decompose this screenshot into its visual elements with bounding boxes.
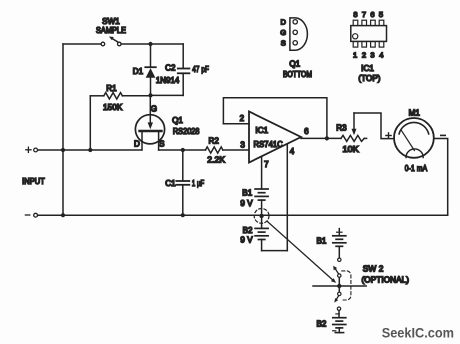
label pin 8 bbox=[353, 10, 357, 19]
label pin 4 bbox=[290, 147, 295, 156]
svg-text:S: S bbox=[159, 140, 164, 149]
wire: C2 bottom to D1 bottom bbox=[151, 94, 184, 96]
label 9 V bbox=[240, 199, 253, 208]
svg-text:RS2028: RS2028 bbox=[173, 127, 200, 136]
label D pinout bbox=[280, 18, 286, 27]
svg-text:9 V: 9 V bbox=[240, 236, 253, 245]
svg-text:(OPTIONAL): (OPTIONAL) bbox=[362, 275, 410, 284]
svg-text:SeekIC.com: SeekIC.com bbox=[382, 326, 454, 341]
wire: pointer arrow from battery junction to SW2 bbox=[267, 221, 336, 283]
label pin 3 bbox=[240, 141, 245, 150]
label pin 1 bbox=[353, 50, 357, 59]
wire: top sample line right segment bbox=[121, 43, 183, 45]
label R3 bbox=[336, 124, 347, 133]
wire: B2 bottom return to pin4 line bbox=[262, 250, 288, 252]
svg-text:1N914: 1N914 bbox=[156, 76, 180, 85]
svg-text:4: 4 bbox=[379, 50, 383, 59]
wire: left vertical from SW1 line down to ground rail bbox=[62, 44, 64, 215]
svg-text:B2: B2 bbox=[317, 319, 327, 328]
label B2 bbox=[243, 226, 253, 235]
node: junction left vertical / ground rail bbox=[61, 213, 65, 217]
label BOTTOM bbox=[283, 70, 312, 79]
svg-text:2.2K: 2.2K bbox=[207, 156, 225, 165]
label S pin bbox=[159, 140, 164, 149]
label RS2028 bbox=[173, 127, 200, 136]
wire: + input line to Q1 drain bbox=[38, 149, 142, 151]
label pin 4 bbox=[379, 50, 383, 59]
label (OPTIONAL) bbox=[362, 275, 410, 284]
resistor R1 bbox=[90, 93, 150, 99]
diode D1 bbox=[145, 67, 156, 95]
label B1 bbox=[242, 188, 252, 197]
transistor Q1 (FET) bbox=[135, 95, 164, 150]
battery B1 (optional) bbox=[333, 229, 346, 258]
wire: top sample line left segment bbox=[63, 43, 101, 45]
op-amp IC1 bbox=[249, 112, 301, 163]
svg-text:SW1: SW1 bbox=[102, 17, 120, 26]
svg-text:(TOP): (TOP) bbox=[358, 74, 380, 83]
label 1 uF bbox=[192, 179, 204, 188]
label Q1 bbox=[172, 116, 183, 125]
wire: output pin 6 bbox=[301, 137, 341, 139]
svg-text:G: G bbox=[151, 105, 157, 114]
capacitor C2 bbox=[178, 44, 190, 95]
node: junction source line / C1 bbox=[181, 148, 185, 152]
svg-text:2: 2 bbox=[362, 50, 366, 59]
meter M1 bbox=[394, 118, 434, 158]
label D1 bbox=[133, 67, 144, 76]
svg-text:0-1 mA: 0-1 mA bbox=[405, 164, 428, 173]
node: junction C1 / ground rail bbox=[181, 213, 185, 217]
svg-text:D1: D1 bbox=[133, 67, 144, 76]
label IC1 dip bbox=[361, 64, 374, 73]
wire: pin 2 input bbox=[223, 123, 249, 125]
dashed bracket SW2 bbox=[342, 271, 351, 300]
svg-text:1 µF: 1 µF bbox=[192, 179, 204, 188]
svg-text:150K: 150K bbox=[103, 103, 123, 112]
svg-text:D: D bbox=[134, 139, 140, 148]
label pin 6 bbox=[304, 127, 309, 136]
label SW1 bbox=[102, 17, 120, 26]
wire: pin 7 to B1 bbox=[261, 157, 263, 189]
label S pinout bbox=[281, 39, 286, 48]
svg-text:IC1: IC1 bbox=[255, 126, 268, 135]
svg-text:1: 1 bbox=[353, 50, 357, 59]
svg-text:S: S bbox=[281, 39, 286, 48]
svg-text:R1: R1 bbox=[106, 84, 117, 93]
svg-text:3: 3 bbox=[370, 50, 374, 59]
svg-text:9 V: 9 V bbox=[240, 199, 253, 208]
label G pinout bbox=[280, 28, 286, 37]
label pin 5 bbox=[379, 10, 383, 19]
node: junction D1/R1/C2/gate bbox=[148, 93, 152, 97]
terminal: - input bbox=[25, 213, 37, 217]
wire: R1 left drop to + line bbox=[89, 96, 91, 150]
svg-text:B1: B1 bbox=[242, 188, 252, 197]
terminal: + input bbox=[26, 147, 38, 152]
svg-text:IC1: IC1 bbox=[361, 64, 374, 73]
svg-text:7: 7 bbox=[362, 10, 366, 19]
label B1 optional bbox=[317, 237, 327, 246]
label 10K bbox=[343, 145, 360, 154]
svg-text:47 pF: 47 pF bbox=[192, 65, 209, 74]
wire: feedback loop bbox=[223, 98, 327, 139]
label 9 V bbox=[240, 236, 253, 245]
label 2.2K bbox=[207, 156, 225, 165]
svg-text:D: D bbox=[280, 18, 286, 27]
wire: pin 4 down to B2 return bbox=[286, 144, 288, 251]
label SW 2 bbox=[363, 265, 384, 274]
IC1 DIP package top view bbox=[351, 20, 387, 47]
label R1 bbox=[106, 84, 117, 93]
wire: meter minus to ground rail bbox=[434, 139, 448, 216]
label B2 optional bbox=[317, 319, 327, 328]
svg-text:6: 6 bbox=[370, 10, 374, 19]
label INPUT bbox=[22, 177, 45, 186]
node: battery midpoint junction bbox=[259, 214, 263, 218]
switch SW2 bbox=[313, 258, 366, 310]
node: junction top wire / D1 branch bbox=[148, 42, 152, 46]
transistor Q1 bottom view bbox=[290, 18, 308, 50]
wire: D1 branch vertical bbox=[150, 44, 152, 67]
label SAMPLE bbox=[96, 26, 126, 35]
label G pin bbox=[151, 105, 157, 114]
resistor R3 (rheostat) bbox=[341, 113, 394, 141]
label D pin bbox=[134, 139, 140, 148]
svg-text:6: 6 bbox=[304, 127, 309, 136]
label 150K bbox=[103, 103, 123, 112]
battery B2 bbox=[255, 216, 268, 251]
label C2 bbox=[165, 64, 176, 73]
label M1 bbox=[409, 109, 421, 118]
svg-text:B2: B2 bbox=[243, 226, 253, 235]
svg-text:INPUT: INPUT bbox=[22, 177, 45, 186]
svg-text:SAMPLE: SAMPLE bbox=[96, 26, 126, 35]
svg-text:8: 8 bbox=[353, 10, 357, 19]
svg-text:C1: C1 bbox=[165, 179, 176, 188]
svg-text:Q1: Q1 bbox=[172, 116, 183, 125]
svg-text:G: G bbox=[280, 28, 286, 37]
svg-text:BOTTOM: BOTTOM bbox=[283, 70, 312, 79]
node: junction left vertical / + line bbox=[61, 148, 65, 152]
label pin 3 bbox=[370, 50, 374, 59]
svg-text:R3: R3 bbox=[336, 124, 347, 133]
svg-text:SW 2: SW 2 bbox=[363, 265, 384, 274]
label Q1 bottom bbox=[289, 60, 300, 69]
battery B2 (optional) bbox=[333, 310, 346, 332]
resistor R2 bbox=[206, 147, 250, 153]
label pin 7 bbox=[362, 10, 366, 19]
label pin 2 bbox=[362, 50, 366, 59]
label + meter bbox=[386, 133, 391, 138]
label - meter bbox=[441, 134, 445, 136]
svg-text:C2: C2 bbox=[165, 64, 176, 73]
wire: Q1 source to R2 bbox=[159, 149, 206, 151]
watermark SeekIC.com bbox=[382, 326, 454, 341]
label IC1 bbox=[255, 126, 268, 135]
dashed circle highlight bbox=[254, 209, 269, 224]
svg-text:R2: R2 bbox=[208, 136, 219, 145]
svg-text:3: 3 bbox=[240, 141, 245, 150]
label RS741C bbox=[254, 140, 283, 149]
svg-text:RS741C: RS741C bbox=[254, 140, 283, 149]
node: junction output / feedback bbox=[325, 136, 329, 140]
label pin 6 bbox=[370, 10, 374, 19]
svg-text:7: 7 bbox=[264, 160, 269, 169]
node: junction R1 drop / + line bbox=[88, 148, 92, 152]
label 47 pF bbox=[192, 65, 209, 74]
label pin 7 bbox=[264, 160, 269, 169]
svg-text:4: 4 bbox=[290, 147, 295, 156]
label C1 bbox=[165, 179, 176, 188]
label 1N914 bbox=[156, 76, 180, 85]
svg-text:10K: 10K bbox=[343, 145, 360, 154]
label pin 2 bbox=[240, 114, 245, 123]
battery B1 bbox=[255, 189, 268, 216]
label (TOP) bbox=[358, 74, 380, 83]
label R2 bbox=[208, 136, 219, 145]
svg-text:Q1: Q1 bbox=[289, 60, 300, 69]
svg-text:M1: M1 bbox=[409, 109, 421, 118]
svg-text:2: 2 bbox=[240, 114, 245, 123]
capacitor C1 bbox=[176, 150, 189, 215]
svg-text:B1: B1 bbox=[317, 237, 327, 246]
label 0-1 mA bbox=[405, 164, 428, 173]
wire: ground rail bbox=[38, 214, 448, 216]
switch SW1 bbox=[101, 37, 121, 46]
svg-text:5: 5 bbox=[379, 10, 383, 19]
